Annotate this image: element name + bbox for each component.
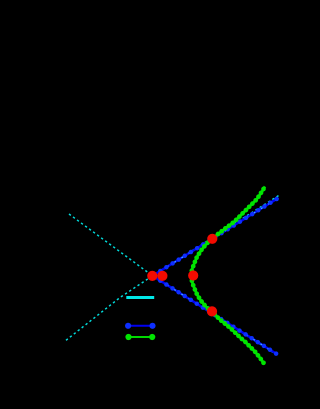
red dot vertex (188, 270, 198, 280)
green branch markers (189, 187, 266, 366)
red dot crossing right (157, 271, 167, 281)
cyan dash sparkle over blue lower ray (153, 276, 278, 355)
legend green entry (129, 336, 153, 338)
red dot lower intersection (207, 306, 217, 316)
green branch line (191, 187, 265, 365)
cyan dashed asymptote line A (upper-left to lower-right) (69, 214, 273, 353)
red dot crossing left (147, 271, 157, 281)
legend cyan bar (126, 296, 154, 299)
cyan dash sparkle over blue upper ray (153, 198, 279, 276)
blue upper ray line (153, 198, 279, 276)
blue ray markers (152, 197, 279, 356)
red dot upper intersection (207, 234, 217, 244)
legend blue entry (128, 325, 152, 327)
cyan dashed asymptote line B (lower-left to upper-right) (66, 196, 279, 341)
blue lower ray line (153, 276, 278, 355)
